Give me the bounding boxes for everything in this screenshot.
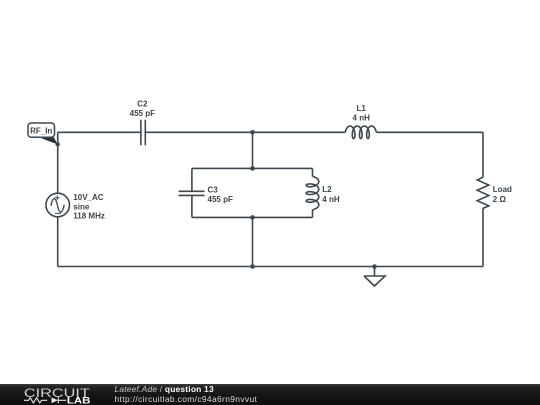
node flag RF_In: [28, 123, 60, 147]
node junction: bottom rail / ground: [372, 264, 377, 269]
svg-text:118 MHz: 118 MHz: [73, 212, 105, 221]
wire: tank box right upper (to L2 top lead): [312, 168, 314, 176]
wire: left rail upper (corner down to source V1 top terminal): [57, 132, 59, 193]
svg-text:Load: Load: [493, 185, 512, 194]
wire: tank box bottom edge: [192, 216, 313, 218]
capacitor C2 (series, top rail): [130, 99, 155, 145]
svg-text:RF_In: RF_In: [30, 126, 52, 135]
wire: right rail lower (Load bottom to bottom rail): [482, 208, 484, 266]
capacitor C3 (tank, left branch): [179, 186, 233, 205]
CircuitLab logo: [0, 384, 100, 405]
flag balloon: [28, 123, 55, 137]
inductor L1 (series, top rail): [345, 104, 376, 139]
svg-text:C3: C3: [208, 186, 219, 195]
wire: tank box top edge: [192, 167, 313, 169]
node junction: tank box top: [250, 166, 255, 171]
node RF_In attachment dot: [56, 142, 60, 146]
wire: top rail left segment (source top to C2 left plate): [58, 131, 140, 133]
wire: tank box left lower (C3 bottom plate to box bottom): [191, 196, 193, 217]
svg-text:4 nH: 4 nH: [322, 195, 340, 204]
footer watermark bar: [0, 384, 540, 405]
wire: tank feed lower (tank box bottom to bottom rail): [252, 217, 254, 266]
wire: left rail lower (source V1 bottom terminal to bottom rail): [57, 217, 59, 267]
wire: tank box left upper (to C3 top plate): [191, 168, 193, 190]
svg-text:C2: C2: [137, 99, 148, 108]
svg-text:sine: sine: [73, 202, 90, 211]
wire: tank feed upper (top rail to tank box top): [252, 132, 254, 168]
svg-text:455 pF: 455 pF: [208, 195, 233, 204]
node junction: top rail / tank feed: [250, 130, 255, 135]
svg-text:LAB: LAB: [67, 396, 91, 405]
svg-text:2 Ω: 2 Ω: [493, 195, 507, 204]
resistor Load (right rail): [477, 177, 512, 208]
svg-text:4 nH: 4 nH: [353, 113, 371, 122]
node junction: tank box bottom: [250, 215, 255, 220]
svg-text:L2: L2: [322, 185, 332, 194]
node junction: bottom rail / tank feed: [250, 264, 255, 269]
flag pointer tail: [39, 137, 58, 144]
svg-text:L1: L1: [357, 104, 367, 113]
wire: right rail upper (top rail down to Load top): [482, 132, 484, 177]
svg-text:10V_AC: 10V_AC: [73, 193, 103, 202]
ground symbol: [364, 267, 385, 287]
inductor L2 (tank, right branch): [306, 176, 340, 209]
attribution text: [115, 385, 258, 404]
wire: top rail right segment (L1 right lead to right rail): [376, 131, 483, 133]
wire: bottom rail: [58, 266, 483, 268]
wire: tank box right lower (L2 bottom lead to box bottom): [312, 210, 314, 218]
voltage source V1 (10V_AC sine 118 MHz): [46, 193, 105, 220]
svg-text:455 pF: 455 pF: [130, 109, 155, 118]
wire: top rail mid segment (C2 right plate to L1 left lead): [146, 131, 345, 133]
